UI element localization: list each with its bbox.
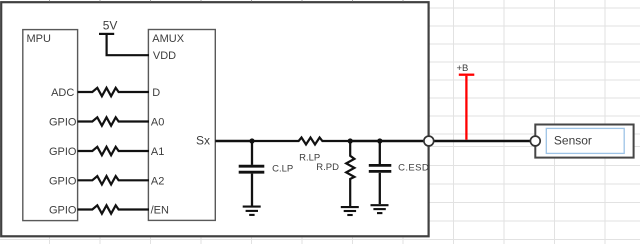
svg-text:D: D bbox=[152, 87, 160, 99]
junction node at R.PD tap bbox=[348, 138, 353, 143]
series resistor (GPIO-A1) with leads bbox=[78, 147, 149, 155]
svg-text:C.ESD: C.ESD bbox=[398, 162, 429, 173]
resistor R.PD (vertical) with leads bbox=[346, 141, 354, 206]
5V supply symbol bbox=[99, 34, 149, 55]
junction node at C.ESD tap bbox=[377, 138, 382, 143]
series resistor (ADC-D) with leads bbox=[78, 88, 149, 96]
junction node at C.LP tap bbox=[249, 138, 254, 143]
series resistor (GPIO-A2) with leads bbox=[78, 176, 149, 184]
ground (C.ESD) bbox=[371, 205, 389, 213]
+B supply symbol (red) bbox=[459, 75, 475, 140]
series resistor (GPIO-/EN) with leads bbox=[78, 205, 149, 213]
wire between R.PD and C.ESD nodes bbox=[350, 140, 380, 142]
series resistor (GPIO-A0) with leads bbox=[78, 117, 149, 125]
svg-text:VDD: VDD bbox=[153, 50, 176, 62]
svg-text:ADC: ADC bbox=[51, 87, 74, 99]
circuit boundary box bbox=[1, 2, 428, 236]
svg-text:A1: A1 bbox=[151, 146, 164, 158]
svg-text:A0: A0 bbox=[151, 117, 164, 129]
terminal circle at boundary bbox=[424, 136, 434, 146]
svg-text:GPIO: GPIO bbox=[49, 146, 77, 158]
svg-text:GPIO: GPIO bbox=[49, 117, 77, 129]
svg-text:/EN: /EN bbox=[151, 205, 169, 217]
svg-text:Sx: Sx bbox=[196, 134, 210, 148]
wire Sx output bbox=[215, 140, 252, 142]
resistor R.LP with leads bbox=[252, 138, 350, 145]
AMUX box U2 bbox=[148, 30, 215, 221]
capacitor C.LP bbox=[239, 141, 265, 206]
svg-text:R.PD: R.PD bbox=[316, 162, 339, 173]
svg-text:GPIO: GPIO bbox=[49, 205, 77, 217]
svg-text:MPU: MPU bbox=[27, 33, 52, 45]
svg-text:5V: 5V bbox=[103, 19, 118, 33]
svg-text:+B: +B bbox=[457, 63, 469, 74]
ground (R.PD) bbox=[341, 207, 359, 215]
svg-text:A2: A2 bbox=[151, 175, 164, 187]
terminal circle at sensor bbox=[530, 136, 540, 146]
svg-text:GPIO: GPIO bbox=[49, 175, 77, 187]
capacitor C.ESD bbox=[369, 141, 392, 204]
Sensor inner frame bbox=[546, 128, 624, 153]
svg-text:C.LP: C.LP bbox=[272, 164, 293, 175]
svg-text:Sensor: Sensor bbox=[554, 134, 592, 148]
wire C.ESD node to boundary terminal bbox=[380, 140, 424, 142]
MPU box U1 bbox=[23, 30, 78, 221]
Sensor box bbox=[535, 125, 633, 158]
svg-text:AMUX: AMUX bbox=[152, 33, 184, 45]
ground (C.LP) bbox=[243, 207, 261, 215]
wire boundary terminal to sensor terminal bbox=[434, 140, 531, 142]
